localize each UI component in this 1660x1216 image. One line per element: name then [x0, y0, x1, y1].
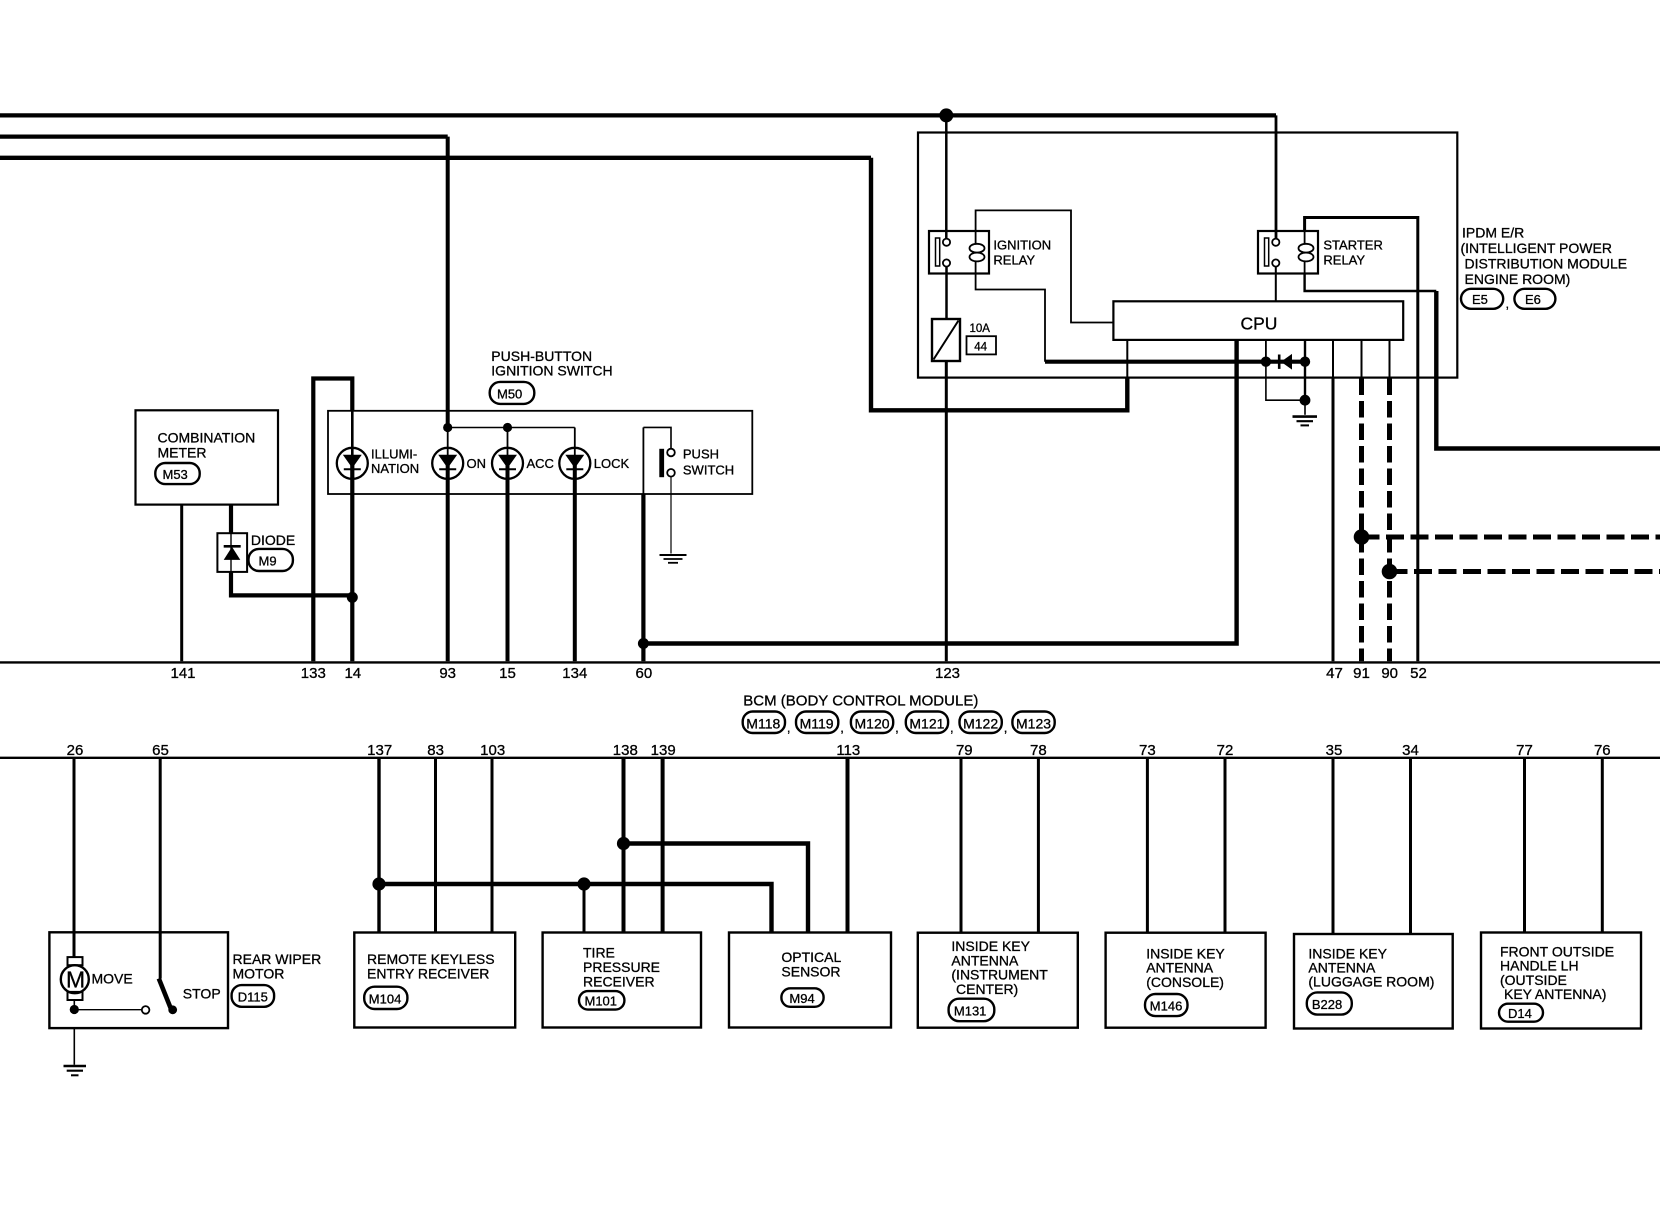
motor brush top	[68, 957, 83, 965]
svg-text:D14: D14	[1508, 1006, 1532, 1021]
svg-text:STOP: STOP	[183, 985, 221, 1001]
optical sensor box M94	[729, 933, 891, 1028]
wire fuse output to BCM pin 123	[945, 361, 948, 661]
wire drop to LOCK LED	[574, 428, 576, 456]
connector E6	[1514, 289, 1555, 309]
svg-text:138: 138	[613, 742, 638, 759]
node junction dot on pin 137 wire	[372, 877, 385, 890]
node dot pin 93	[443, 423, 452, 432]
IPDM E/R box outline	[918, 133, 1457, 378]
wire BCM pin 76	[1601, 759, 1604, 933]
wire thick starter output down and right to edge	[1436, 291, 1660, 449]
ignition relay contact bar	[936, 238, 940, 266]
wire LOCK LED to BCM pin 134	[573, 456, 577, 662]
wire BCM pin 103	[491, 759, 494, 933]
node junction dot on line 1	[939, 108, 953, 122]
wire ACC LED to BCM pin 15	[506, 456, 510, 662]
tire pressure receiver box M101	[543, 933, 701, 1028]
svg-text:TIRE: TIRE	[583, 944, 615, 960]
wire through diode box	[230, 533, 232, 572]
push switch contact circle top	[667, 449, 675, 457]
svg-text:73: 73	[1139, 742, 1156, 759]
svg-text:M119: M119	[800, 716, 834, 732]
push-button ignition switch box M50	[328, 411, 752, 494]
LED ILLUMINATION	[337, 448, 368, 479]
svg-text:35: 35	[1326, 742, 1343, 759]
diode M9 symbol (pointing up)	[224, 545, 241, 548]
starter relay contact box	[1258, 231, 1318, 274]
wire combination meter to BCM pin 141	[180, 505, 183, 662]
wire CPU power pin (thin inside IPDM box)	[1126, 340, 1128, 379]
wire shielded horizontal from 91 to right edge	[1362, 535, 1660, 540]
wire BCM pin 77	[1523, 759, 1526, 933]
svg-text:CENTER): CENTER)	[956, 981, 1018, 997]
ignition relay contact terminal circle bottom	[943, 259, 950, 266]
BCM upper connector line	[0, 661, 1660, 663]
svg-text:,: ,	[950, 720, 954, 735]
svg-text:ON: ON	[467, 456, 487, 471]
wire BCM pin 26 to rear wiper motor	[73, 759, 76, 957]
svg-text:PUSH: PUSH	[683, 446, 719, 461]
wire branch drop into tire pressure receiver	[583, 884, 586, 933]
wire BCM pin 35	[1332, 759, 1335, 934]
svg-text:REMOTE KEYLESS: REMOTE KEYLESS	[367, 951, 495, 967]
remote keyless entry receiver box M104	[354, 933, 515, 1028]
push switch symbol	[659, 449, 664, 477]
CPU box	[1113, 301, 1403, 340]
node ground junction dot	[1300, 395, 1311, 406]
svg-text:M120: M120	[855, 716, 890, 732]
svg-text:,: ,	[1506, 296, 1510, 311]
svg-text:,: ,	[840, 720, 844, 735]
wire starter relay coil bottom to thick output	[1305, 274, 1437, 292]
node junction dot on pin 138 wire	[617, 837, 630, 850]
wire starter relay coil top enclosure to BCM pin 52	[1305, 218, 1418, 662]
wire BCM pin 83	[434, 759, 437, 933]
motor brush bottom	[68, 992, 83, 1000]
connector M104	[364, 987, 407, 1009]
wire BCM pin 73	[1146, 759, 1149, 933]
connector M50	[490, 382, 535, 404]
svg-text:90: 90	[1381, 665, 1398, 682]
svg-text:COMBINATION: COMBINATION	[158, 430, 256, 446]
svg-text:72: 72	[1217, 742, 1234, 759]
wire pin 60 inside box	[642, 427, 644, 494]
svg-text:RECEIVER: RECEIVER	[583, 974, 655, 990]
node junction dot on pin 14 wire	[347, 592, 358, 603]
motor M circle	[61, 965, 89, 993]
wire BCM pin 139 to tire pressure receiver	[661, 759, 665, 933]
svg-text:47: 47	[1326, 665, 1343, 682]
diode M9 box	[217, 533, 247, 572]
ignition relay contact terminal circle top	[943, 239, 950, 246]
svg-text:93: 93	[439, 665, 456, 682]
svg-text:103: 103	[480, 742, 505, 759]
LED ON	[432, 448, 463, 479]
wire BCM pin 78	[1037, 759, 1040, 933]
svg-text:M122: M122	[963, 716, 998, 732]
svg-text:PUSH-BUTTON: PUSH-BUTTON	[491, 348, 592, 364]
svg-text:133: 133	[301, 665, 326, 682]
wire pin 14 LED bottom to BCM	[350, 456, 354, 662]
wire starter relay contact to CPU top	[1275, 267, 1277, 302]
svg-text:34: 34	[1402, 742, 1419, 759]
svg-text:83: 83	[427, 742, 444, 759]
wire drop to ACC LED	[507, 428, 509, 456]
wire BCM pin 65 to wiper stop switch	[159, 759, 162, 979]
wire line2 drop to push-button ignition switch pin 93	[446, 137, 450, 428]
svg-text:B228: B228	[1312, 997, 1342, 1012]
svg-text:134: 134	[562, 665, 587, 682]
svg-text:,: ,	[895, 720, 899, 735]
combination meter box M53	[136, 410, 279, 504]
svg-text:M53: M53	[163, 467, 188, 482]
wire BCM pin 133 up and over to pin 14 (inverted U)	[313, 379, 352, 662]
connector M9	[249, 549, 293, 571]
wire battery feed line 1 (top)	[0, 113, 1276, 117]
svg-text:26: 26	[67, 742, 84, 759]
wire battery feed line 3	[0, 156, 871, 160]
wire ON LED to BCM pin 93	[446, 456, 450, 662]
svg-text:91: 91	[1353, 665, 1370, 682]
wire diode output thick to pin-14 junction	[231, 572, 352, 596]
ground symbol IPDM	[1304, 400, 1306, 415]
node shielded junction dot pin 90	[1382, 564, 1398, 580]
wire BCM pin 34	[1409, 759, 1412, 934]
fuse diagonal	[934, 321, 959, 360]
wire drop to ON LED	[447, 428, 449, 456]
fuse number box 44	[967, 336, 997, 354]
svg-text:ILLUMI-: ILLUMI-	[371, 446, 417, 461]
connector M122	[960, 712, 1002, 734]
svg-text:14: 14	[344, 665, 361, 682]
svg-text:65: 65	[152, 742, 169, 759]
svg-text:M101: M101	[585, 994, 618, 1009]
svg-text:STARTER: STARTER	[1323, 238, 1382, 253]
svg-text:10A: 10A	[970, 323, 991, 335]
svg-text:IGNITION SWITCH: IGNITION SWITCH	[491, 363, 612, 379]
wire thick branch from 137 to optical sensor	[379, 884, 772, 933]
svg-text:MOVE: MOVE	[92, 970, 133, 986]
svg-text:M121: M121	[909, 716, 944, 732]
node diode left junction dot	[1261, 357, 1271, 367]
starter relay contact terminal circle top	[1272, 239, 1279, 246]
svg-text:DISTRIBUTION MODULE: DISTRIBUTION MODULE	[1465, 256, 1628, 272]
wire ignition relay coil top enclosure to CPU	[976, 210, 1114, 322]
svg-text:113: 113	[836, 742, 860, 759]
wire internal bus of ignition switch	[448, 427, 575, 429]
connector M94	[781, 988, 823, 1007]
front outside handle LH box D14	[1481, 933, 1641, 1029]
connector M118	[743, 712, 785, 734]
connector M120	[851, 712, 893, 734]
inside key antenna (luggage room) box B228	[1294, 934, 1453, 1029]
svg-text:PRESSURE: PRESSURE	[583, 959, 660, 975]
svg-text:E5: E5	[1472, 292, 1488, 307]
svg-text:DIODE: DIODE	[251, 532, 295, 548]
stop switch pivot dot	[168, 1005, 177, 1014]
connector M121	[906, 712, 948, 734]
wire junction drop to ignition relay contact	[945, 115, 948, 238]
svg-text:METER: METER	[158, 444, 207, 460]
svg-text:(CONSOLE): (CONSOLE)	[1146, 974, 1224, 990]
stop switch open contact circle	[142, 1006, 150, 1014]
wire ignition relay contact to 10A fuse	[945, 267, 948, 319]
svg-text:52: 52	[1410, 665, 1427, 682]
wire BCM pin 79	[960, 759, 963, 933]
svg-text:RELAY: RELAY	[1323, 253, 1365, 268]
svg-text:60: 60	[636, 665, 653, 682]
svg-text:M118: M118	[746, 716, 780, 732]
svg-text:M9: M9	[259, 553, 277, 568]
svg-text:KEY ANTENNA): KEY ANTENNA)	[1504, 986, 1606, 1002]
svg-text:M: M	[66, 967, 85, 993]
wire CPU pin to diode cathode / ground node	[1304, 340, 1306, 400]
svg-text:,: ,	[787, 720, 791, 735]
wire push switch bottom contact to ground	[670, 477, 672, 554]
wire motor to stop-switch common	[73, 1000, 75, 1010]
wire shielded pin 91 dashed to BCM	[1359, 379, 1364, 662]
wire BCM pin 113 to optical sensor	[846, 759, 850, 933]
inside key antenna (console) box M146	[1106, 933, 1266, 1028]
svg-text:79: 79	[956, 742, 973, 759]
svg-text:SENSOR: SENSOR	[781, 963, 840, 979]
svg-text:ENTRY RECEIVER: ENTRY RECEIVER	[367, 965, 489, 981]
connector M101	[579, 991, 624, 1010]
BCM lower connector line	[0, 757, 1660, 759]
wire motor box to ground	[73, 1028, 75, 1065]
connector E5	[1461, 289, 1503, 309]
svg-text:RELAY: RELAY	[993, 253, 1035, 268]
svg-text:M94: M94	[789, 991, 814, 1006]
svg-text:MOTOR: MOTOR	[233, 966, 285, 982]
connector M119	[796, 712, 838, 734]
stop switch lever	[159, 979, 171, 1010]
svg-text:E6: E6	[1525, 292, 1541, 307]
svg-text:77: 77	[1516, 742, 1533, 759]
svg-text:M104: M104	[369, 992, 402, 1007]
connector D14	[1499, 1004, 1543, 1022]
node junction dot motor common	[70, 1005, 79, 1014]
svg-text:139: 139	[651, 742, 676, 759]
connector M123	[1012, 712, 1054, 734]
starter relay contact terminal circle bottom	[1272, 259, 1279, 266]
svg-text:(INTELLIGENT POWER: (INTELLIGENT POWER	[1461, 240, 1612, 256]
pin labels lower row	[67, 742, 1611, 759]
svg-text:M131: M131	[954, 1004, 987, 1019]
wire BCM pin 138 to tire pressure receiver	[622, 759, 626, 933]
svg-text:44: 44	[974, 341, 987, 353]
wire battery feed line 2	[0, 135, 448, 139]
svg-text:ENGINE ROOM): ENGINE ROOM)	[1465, 271, 1571, 287]
svg-text:NATION: NATION	[371, 461, 419, 476]
wire common to open contact	[74, 1009, 141, 1011]
svg-text:BCM (BODY CONTROL MODULE): BCM (BODY CONTROL MODULE)	[743, 693, 978, 710]
node diode right junction dot	[1300, 357, 1310, 367]
wire CPU pin 91 solid stub	[1361, 340, 1363, 379]
connector M131	[949, 999, 995, 1022]
wire thick branch from 138 to optical sensor	[624, 844, 809, 933]
wire shielded pin 90 dashed to BCM	[1387, 379, 1392, 662]
fuse 10A box	[932, 319, 960, 361]
svg-text:,: ,	[1004, 720, 1008, 735]
node junction dot on pin 60 wire	[638, 638, 649, 649]
wire CPU pin 90 solid stub	[1389, 340, 1391, 379]
wire BCM pin 72	[1224, 759, 1227, 933]
inside key antenna (instrument center) box M131	[918, 933, 1078, 1028]
node dot pin 15	[503, 423, 512, 432]
ignition relay contact box	[929, 231, 989, 274]
ground symbol push switch	[660, 554, 687, 556]
connector M146	[1145, 994, 1188, 1016]
svg-text:D115: D115	[238, 989, 268, 1004]
svg-text:76: 76	[1594, 742, 1611, 759]
wire CPU output thick to 60-line	[643, 340, 1236, 644]
wire push switch top contact to pin 60	[643, 427, 671, 448]
diode inside IPDM (pointing left)	[1278, 355, 1281, 369]
svg-text:IPDM E/R: IPDM E/R	[1462, 225, 1524, 241]
starter relay contact bar	[1265, 238, 1269, 266]
wire combination meter to diode M9	[229, 505, 233, 534]
svg-text:(LUGGAGE ROOM): (LUGGAGE ROOM)	[1308, 974, 1434, 990]
connector M53	[155, 463, 199, 484]
ignition relay coil	[970, 232, 985, 273]
wire CPU pin 47 to BCM	[1332, 340, 1334, 379]
svg-text:M50: M50	[497, 386, 522, 401]
svg-text:78: 78	[1030, 742, 1047, 759]
connector D115	[232, 985, 275, 1007]
svg-text:15: 15	[499, 665, 516, 682]
wire diode bypass to ground node	[1266, 362, 1305, 401]
pin labels upper row	[170, 665, 1426, 682]
push switch contact circle bottom	[667, 469, 675, 477]
svg-text:M146: M146	[1150, 999, 1183, 1014]
svg-text:M123: M123	[1016, 716, 1051, 732]
wire ignition relay coil bottom to diode line	[976, 274, 1045, 362]
rear wiper motor box D115	[49, 932, 228, 1028]
svg-text:LOCK: LOCK	[594, 456, 630, 471]
wire BCM pin 137 to remote keyless entry receiver	[377, 759, 380, 933]
wire line1 drop to starter relay contact	[1275, 115, 1278, 238]
wire line3 thick path down and right to CPU	[871, 158, 1127, 410]
connector B228	[1307, 992, 1352, 1014]
svg-text:CPU: CPU	[1241, 313, 1278, 333]
ground symbol rear wiper motor	[64, 1065, 87, 1067]
svg-text:SWITCH: SWITCH	[683, 463, 734, 478]
wire CPU pin to diode anode	[1265, 340, 1267, 362]
wire diode line (thick)	[1045, 360, 1305, 364]
node junction dot on branch at tire receiver	[577, 877, 590, 890]
svg-text:IGNITION: IGNITION	[993, 238, 1051, 253]
wire pin 60 to BCM	[641, 494, 645, 661]
svg-text:137: 137	[367, 742, 392, 759]
wire shielded horizontal from 90 to right edge	[1390, 569, 1660, 574]
wire pin 14 inside box to LED	[351, 411, 354, 456]
svg-text:141: 141	[170, 665, 195, 682]
LED LOCK	[559, 448, 590, 479]
starter relay coil	[1299, 232, 1314, 273]
node shielded junction dot pin 91	[1354, 529, 1370, 545]
LED ACC	[492, 448, 523, 479]
svg-text:ACC: ACC	[527, 456, 554, 471]
svg-text:123: 123	[935, 665, 960, 682]
